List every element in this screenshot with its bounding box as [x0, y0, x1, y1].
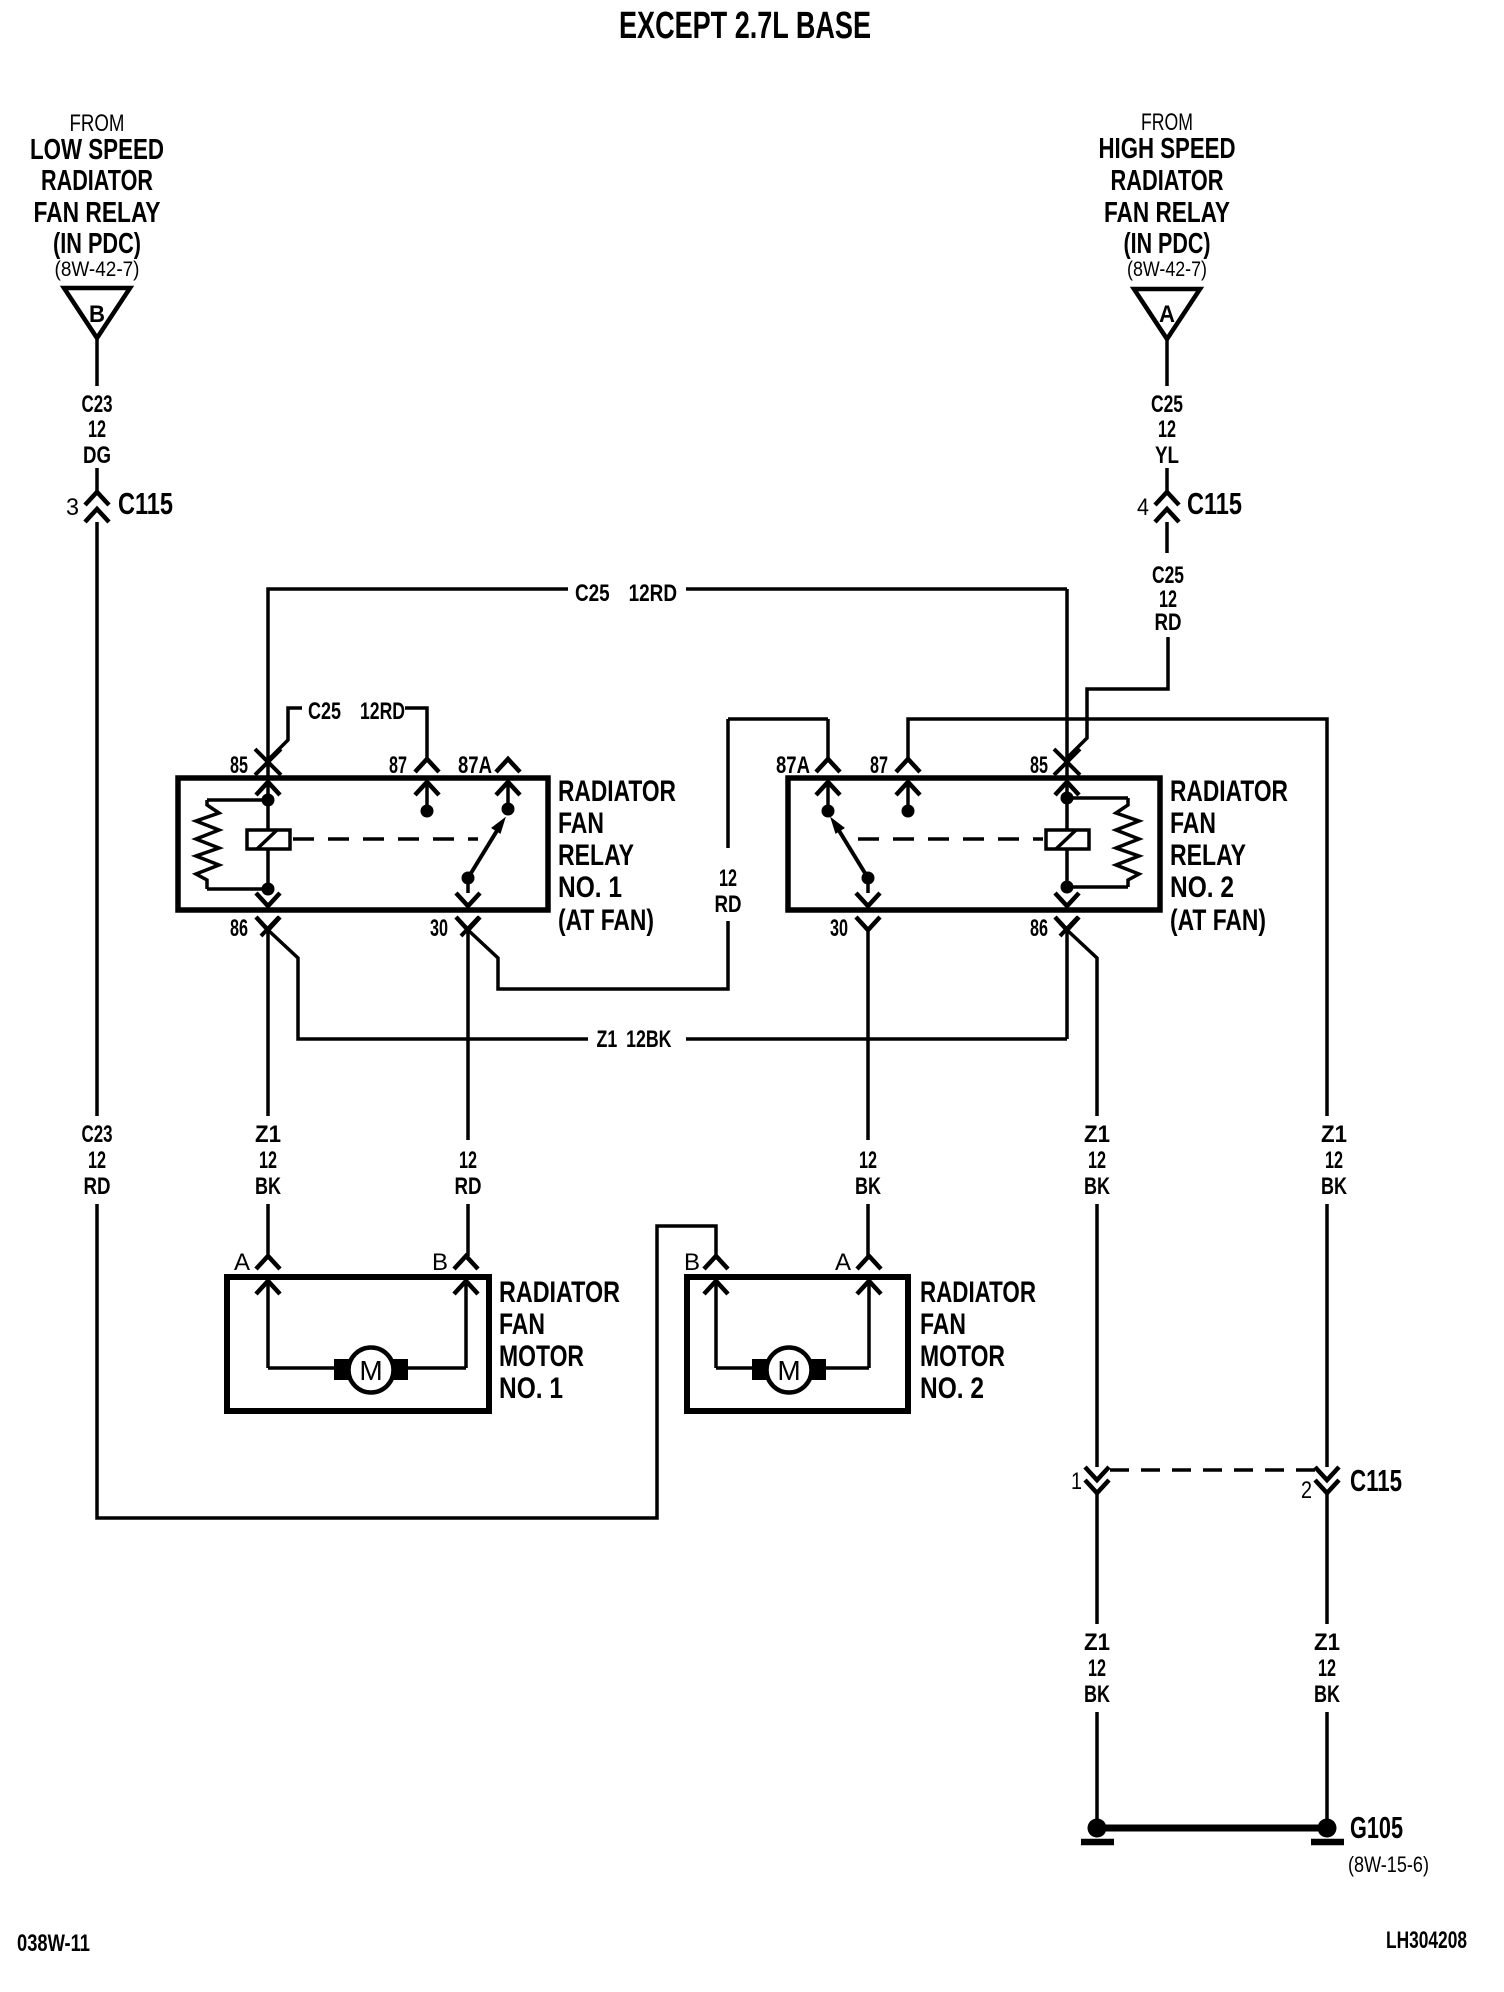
wire from triangle A down — [1165, 339, 1169, 386]
svg-text:M: M — [777, 1355, 800, 1386]
relay1 pin 87 lead bracket — [405, 708, 427, 758]
motor box RADIATOR FAN MOTOR NO.2 — [687, 1277, 908, 1411]
motor1 pin B outer arrow — [454, 1256, 478, 1269]
svg-text:Z1: Z1 — [1314, 1629, 1340, 1656]
connector C115 pin 2 (double chevron) — [1315, 1467, 1339, 1480]
svg-text:C25: C25 — [308, 698, 341, 725]
svg-text:MOTOR: MOTOR — [920, 1340, 1005, 1373]
motor2 terminal left — [752, 1359, 767, 1380]
svg-text:RADIATOR: RADIATOR — [41, 165, 153, 197]
svg-text:FROM: FROM — [70, 110, 125, 137]
wire Z1 to C115 pin1 — [1095, 1204, 1099, 1467]
relay2 pin 87A arrow — [816, 759, 840, 772]
svg-text:RD: RD — [1155, 609, 1182, 636]
svg-text:12RD: 12RD — [360, 698, 405, 725]
svg-text:85: 85 — [230, 752, 248, 779]
relay2 dashed actuator line — [858, 837, 1043, 841]
svg-text:2: 2 — [1301, 1477, 1312, 1504]
svg-text:RD: RD — [715, 891, 742, 918]
connector C115 pin 1 (double chevron) — [1085, 1467, 1109, 1480]
relay2 pin 85 connector X — [1054, 749, 1080, 775]
connector arrow at motor2 pin B — [704, 1256, 728, 1269]
motor1 M circle — [349, 1348, 394, 1393]
svg-text:B: B — [89, 301, 105, 328]
svg-text:FAN: FAN — [1170, 807, 1216, 840]
svg-text:A: A — [234, 1249, 250, 1276]
relay1 pin 87A arrow — [496, 759, 520, 772]
svg-text:(AT FAN): (AT FAN) — [1170, 904, 1266, 937]
motor2 pin B inner arrow — [704, 1281, 728, 1294]
svg-text:038W-11: 038W-11 — [17, 1930, 90, 1957]
motor1 pin A outer arrow — [256, 1256, 280, 1269]
relay1 node dot 87A — [502, 803, 515, 816]
relay2 node dot 87A — [822, 805, 835, 818]
wire C25 below label — [1165, 468, 1169, 491]
relay1 switch pivot dot — [462, 872, 475, 885]
svg-text:86: 86 — [1030, 915, 1048, 942]
motor1 internal wires — [268, 1366, 334, 1370]
relay2 switch pivot dot — [862, 872, 875, 885]
motor1 pin A inner arrow — [256, 1281, 280, 1294]
svg-text:86: 86 — [230, 915, 248, 942]
svg-text:M: M — [359, 1355, 382, 1386]
svg-text:C25: C25 — [1152, 562, 1184, 589]
wire Z1 to ground left — [1095, 1712, 1099, 1820]
wire C25 12 RD elbow to relay2 pin 85 — [1068, 637, 1168, 757]
svg-text:C25 12RD: C25 12RD — [575, 580, 677, 607]
svg-text:YL: YL — [1155, 442, 1179, 469]
svg-text:A: A — [835, 1249, 851, 1276]
wire Z1 12BK horizontal run right segment — [686, 1037, 1067, 1041]
relay1 coil — [247, 830, 290, 849]
relay1 pin 86 outer connector — [256, 917, 280, 930]
wire from relay2 pin86 down to Z1 12BK run — [1065, 930, 1069, 1039]
svg-text:C23: C23 — [82, 391, 113, 418]
connector C115 pin 3 (double chevron) — [85, 492, 109, 505]
svg-text:BK: BK — [1084, 1681, 1110, 1708]
svg-text:12: 12 — [1088, 1655, 1106, 1682]
svg-text:A: A — [1159, 301, 1175, 328]
svg-text:B: B — [432, 1249, 448, 1276]
wire from triangle B down — [95, 338, 99, 386]
relay1 pin 87A inner arrow — [496, 782, 520, 795]
svg-text:FAN RELAY: FAN RELAY — [1104, 197, 1230, 229]
svg-text:87: 87 — [389, 752, 407, 779]
svg-text:12: 12 — [719, 865, 737, 892]
off-page connector triangle A — [1134, 289, 1200, 339]
motor box RADIATOR FAN MOTOR NO.1 — [227, 1277, 489, 1411]
svg-text:4: 4 — [1137, 494, 1149, 521]
svg-text:FROM: FROM — [1141, 109, 1193, 136]
svg-text:1: 1 — [1071, 1468, 1082, 1495]
svg-text:C115: C115 — [1187, 486, 1242, 521]
relay1 coil wire — [266, 800, 270, 830]
svg-text:Z1: Z1 — [1084, 1121, 1110, 1148]
wire Z1 diagonal from relay2 pin86 to C115 pin1 — [1067, 930, 1097, 1116]
ground G105 bus bar — [1106, 1825, 1318, 1832]
motor1 terminal right — [393, 1359, 408, 1380]
svg-text:12: 12 — [88, 416, 106, 443]
svg-text:Z1: Z1 — [255, 1121, 281, 1148]
svg-text:B: B — [684, 1249, 700, 1276]
svg-text:30: 30 — [830, 915, 848, 942]
relay2 pin 30 outer connector — [856, 917, 880, 930]
wire C25 12RD from relay1 pin 85 up and across to relay2 pin 85 — [268, 589, 568, 778]
relay box RADIATOR FAN RELAY NO.2 — [788, 778, 1160, 910]
relay box RADIATOR FAN RELAY NO.1 — [178, 778, 548, 910]
svg-text:FAN: FAN — [920, 1308, 966, 1341]
svg-text:12: 12 — [1158, 416, 1176, 443]
svg-text:RADIATOR: RADIATOR — [499, 1276, 620, 1309]
relay2 coil — [1046, 830, 1089, 849]
wire Z1 from C115 pin2 down — [1325, 1494, 1329, 1624]
wire C23 below label — [95, 468, 99, 491]
wire 12BK from relay2 pin30 down to motor2 pin A — [866, 930, 870, 1140]
svg-text:Z1: Z1 — [1321, 1121, 1347, 1148]
svg-text:RADIATOR: RADIATOR — [1170, 775, 1288, 808]
relay2 switch arm — [838, 829, 868, 878]
wire C23 12 RD from C115 pin3 down — [95, 522, 99, 1116]
svg-text:RADIATOR: RADIATOR — [1111, 165, 1224, 197]
svg-text:RD: RD — [84, 1173, 111, 1200]
motor1 terminal left — [334, 1359, 349, 1380]
svg-text:3: 3 — [66, 494, 79, 521]
svg-text:FAN: FAN — [499, 1308, 545, 1341]
relay1 pin 85 lead bracket to label C25 — [267, 708, 302, 761]
svg-text:(8W-42-7): (8W-42-7) — [55, 258, 140, 281]
svg-text:12: 12 — [1318, 1655, 1336, 1682]
svg-text:NO. 2: NO. 2 — [920, 1372, 984, 1405]
svg-text:NO. 1: NO. 1 — [558, 871, 622, 904]
svg-text:12: 12 — [88, 1147, 106, 1174]
svg-text:LOW SPEED: LOW SPEED — [30, 134, 164, 166]
svg-text:12: 12 — [859, 1147, 877, 1174]
relay2 pin 30 inner arrow — [866, 878, 870, 893]
relay2 node dot 87 — [902, 805, 915, 818]
svg-text:FAN: FAN — [558, 807, 604, 840]
svg-text:RADIATOR: RADIATOR — [920, 1276, 1036, 1309]
relay1 node dot 85 bottom — [262, 883, 275, 896]
wire Z1 from C115 pin1 down — [1095, 1494, 1099, 1624]
motor2 M circle — [767, 1348, 812, 1393]
svg-text:12: 12 — [1325, 1147, 1343, 1174]
motor1 pin B inner arrow — [454, 1281, 478, 1294]
svg-text:C115: C115 — [118, 486, 173, 521]
motor2 pin A inner arrow — [857, 1281, 881, 1294]
relay2 pin 87A inner arrow — [816, 782, 840, 795]
motor2 pin A outer arrow — [857, 1256, 881, 1269]
svg-text:12: 12 — [1088, 1147, 1106, 1174]
wire Z1 from relay1 pin86 down to motor1 pin A — [266, 930, 270, 1116]
svg-text:MOTOR: MOTOR — [499, 1340, 584, 1373]
svg-text:RELAY: RELAY — [1170, 839, 1246, 872]
relay2 pin 86 inner arrow — [1065, 887, 1069, 893]
svg-text:(IN PDC): (IN PDC) — [1124, 228, 1211, 260]
svg-text:BK: BK — [1314, 1681, 1340, 1708]
relay2 node dot 85 top — [1061, 792, 1074, 805]
motor2 internal wires — [716, 1366, 752, 1370]
svg-text:12: 12 — [259, 1147, 277, 1174]
svg-text:85: 85 — [1030, 752, 1048, 779]
svg-text:BK: BK — [1321, 1173, 1347, 1200]
relay1 pin 87 arrow — [415, 759, 439, 772]
svg-text:NO. 2: NO. 2 — [1170, 871, 1234, 904]
svg-text:(8W-15-6): (8W-15-6) — [1348, 1852, 1429, 1877]
wire C23 12 RD to radiator fan motor no.2 pin B — [97, 1204, 716, 1518]
relay2 pin 87 wire up and right to Z1 riser — [908, 719, 1327, 1116]
svg-text:C25: C25 — [1151, 391, 1183, 418]
wire C25 12 RD from C115 pin4 down — [1165, 522, 1169, 553]
relay1 pin 85 connector X — [255, 749, 281, 775]
relay2 pin 85 inner arrow — [1055, 782, 1079, 795]
svg-text:RD: RD — [455, 1173, 482, 1200]
svg-text:LH304208: LH304208 — [1386, 1927, 1467, 1954]
motor2 terminal right — [811, 1359, 826, 1380]
svg-text:RELAY: RELAY — [558, 839, 634, 872]
wire Z1 to C115 pin2 — [1325, 1204, 1329, 1467]
relay1 dashed actuator line — [293, 837, 478, 841]
relay2 resistor — [1067, 796, 1128, 800]
wire Z1 to ground right — [1325, 1712, 1329, 1820]
wire 12RD from relay1 pin30 down to motor1 pin B — [466, 930, 470, 1140]
relay2 pin 87 arrow — [896, 759, 920, 772]
svg-text:BK: BK — [255, 1173, 281, 1200]
svg-text:Z1 12BK: Z1 12BK — [597, 1026, 672, 1053]
svg-text:BK: BK — [1084, 1173, 1110, 1200]
svg-text:87A: 87A — [458, 752, 492, 779]
relay2 coil wire — [1065, 798, 1069, 830]
svg-text:30: 30 — [430, 915, 448, 942]
connector C115 pin 4 (double chevron) — [1155, 492, 1179, 505]
svg-text:87A: 87A — [776, 752, 810, 779]
svg-text:EXCEPT 2.7L BASE: EXCEPT 2.7L BASE — [619, 5, 871, 47]
relay1 resistor — [207, 798, 268, 802]
relay1 pin 87 inner arrow — [415, 782, 439, 795]
svg-text:FAN RELAY: FAN RELAY — [34, 197, 161, 229]
svg-text:HIGH SPEED: HIGH SPEED — [1099, 133, 1236, 165]
svg-text:DG: DG — [83, 442, 111, 469]
svg-text:C23: C23 — [82, 1121, 113, 1148]
wire 12 RD diagonal from relay1 pin30 via elbow to relay2 pin 87A — [468, 921, 728, 989]
svg-text:87: 87 — [870, 752, 888, 779]
ground G105 right terminal — [1318, 1819, 1337, 1838]
svg-text:RADIATOR: RADIATOR — [558, 775, 676, 808]
svg-text:C115: C115 — [1350, 1463, 1402, 1498]
relay1 pin 86 inner arrow — [266, 889, 270, 893]
relay1 pin 30 outer connector — [456, 917, 480, 930]
relay1 switch arm — [468, 829, 498, 878]
relay1 pin 85 inner arrow — [256, 782, 280, 795]
relay2 pin 87 inner arrow — [896, 782, 920, 795]
svg-text:NO. 1: NO. 1 — [499, 1372, 563, 1405]
svg-text:(AT FAN): (AT FAN) — [558, 904, 654, 937]
svg-text:12: 12 — [459, 1147, 477, 1174]
svg-text:BK: BK — [855, 1173, 881, 1200]
relay1 pin 30 inner arrow — [466, 878, 470, 893]
relay2 node dot 85 bottom — [1061, 881, 1074, 894]
connector C115 dashed mating line — [1110, 1468, 1315, 1472]
svg-text:(IN PDC): (IN PDC) — [53, 228, 141, 260]
off-page connector triangle B — [64, 288, 130, 338]
svg-text:(8W-42-7): (8W-42-7) — [1127, 258, 1207, 281]
relay1 node dot 85 top — [262, 794, 275, 807]
relay1 node dot 87 — [421, 805, 434, 818]
relay2 pin 86 outer connector — [1055, 917, 1079, 930]
ground G105 left terminal — [1088, 1819, 1107, 1838]
svg-text:G105: G105 — [1350, 1810, 1403, 1845]
svg-text:Z1: Z1 — [1084, 1629, 1110, 1656]
wire Z1 12BK diagonal from relay1 pin86 to splice run — [268, 930, 588, 1039]
